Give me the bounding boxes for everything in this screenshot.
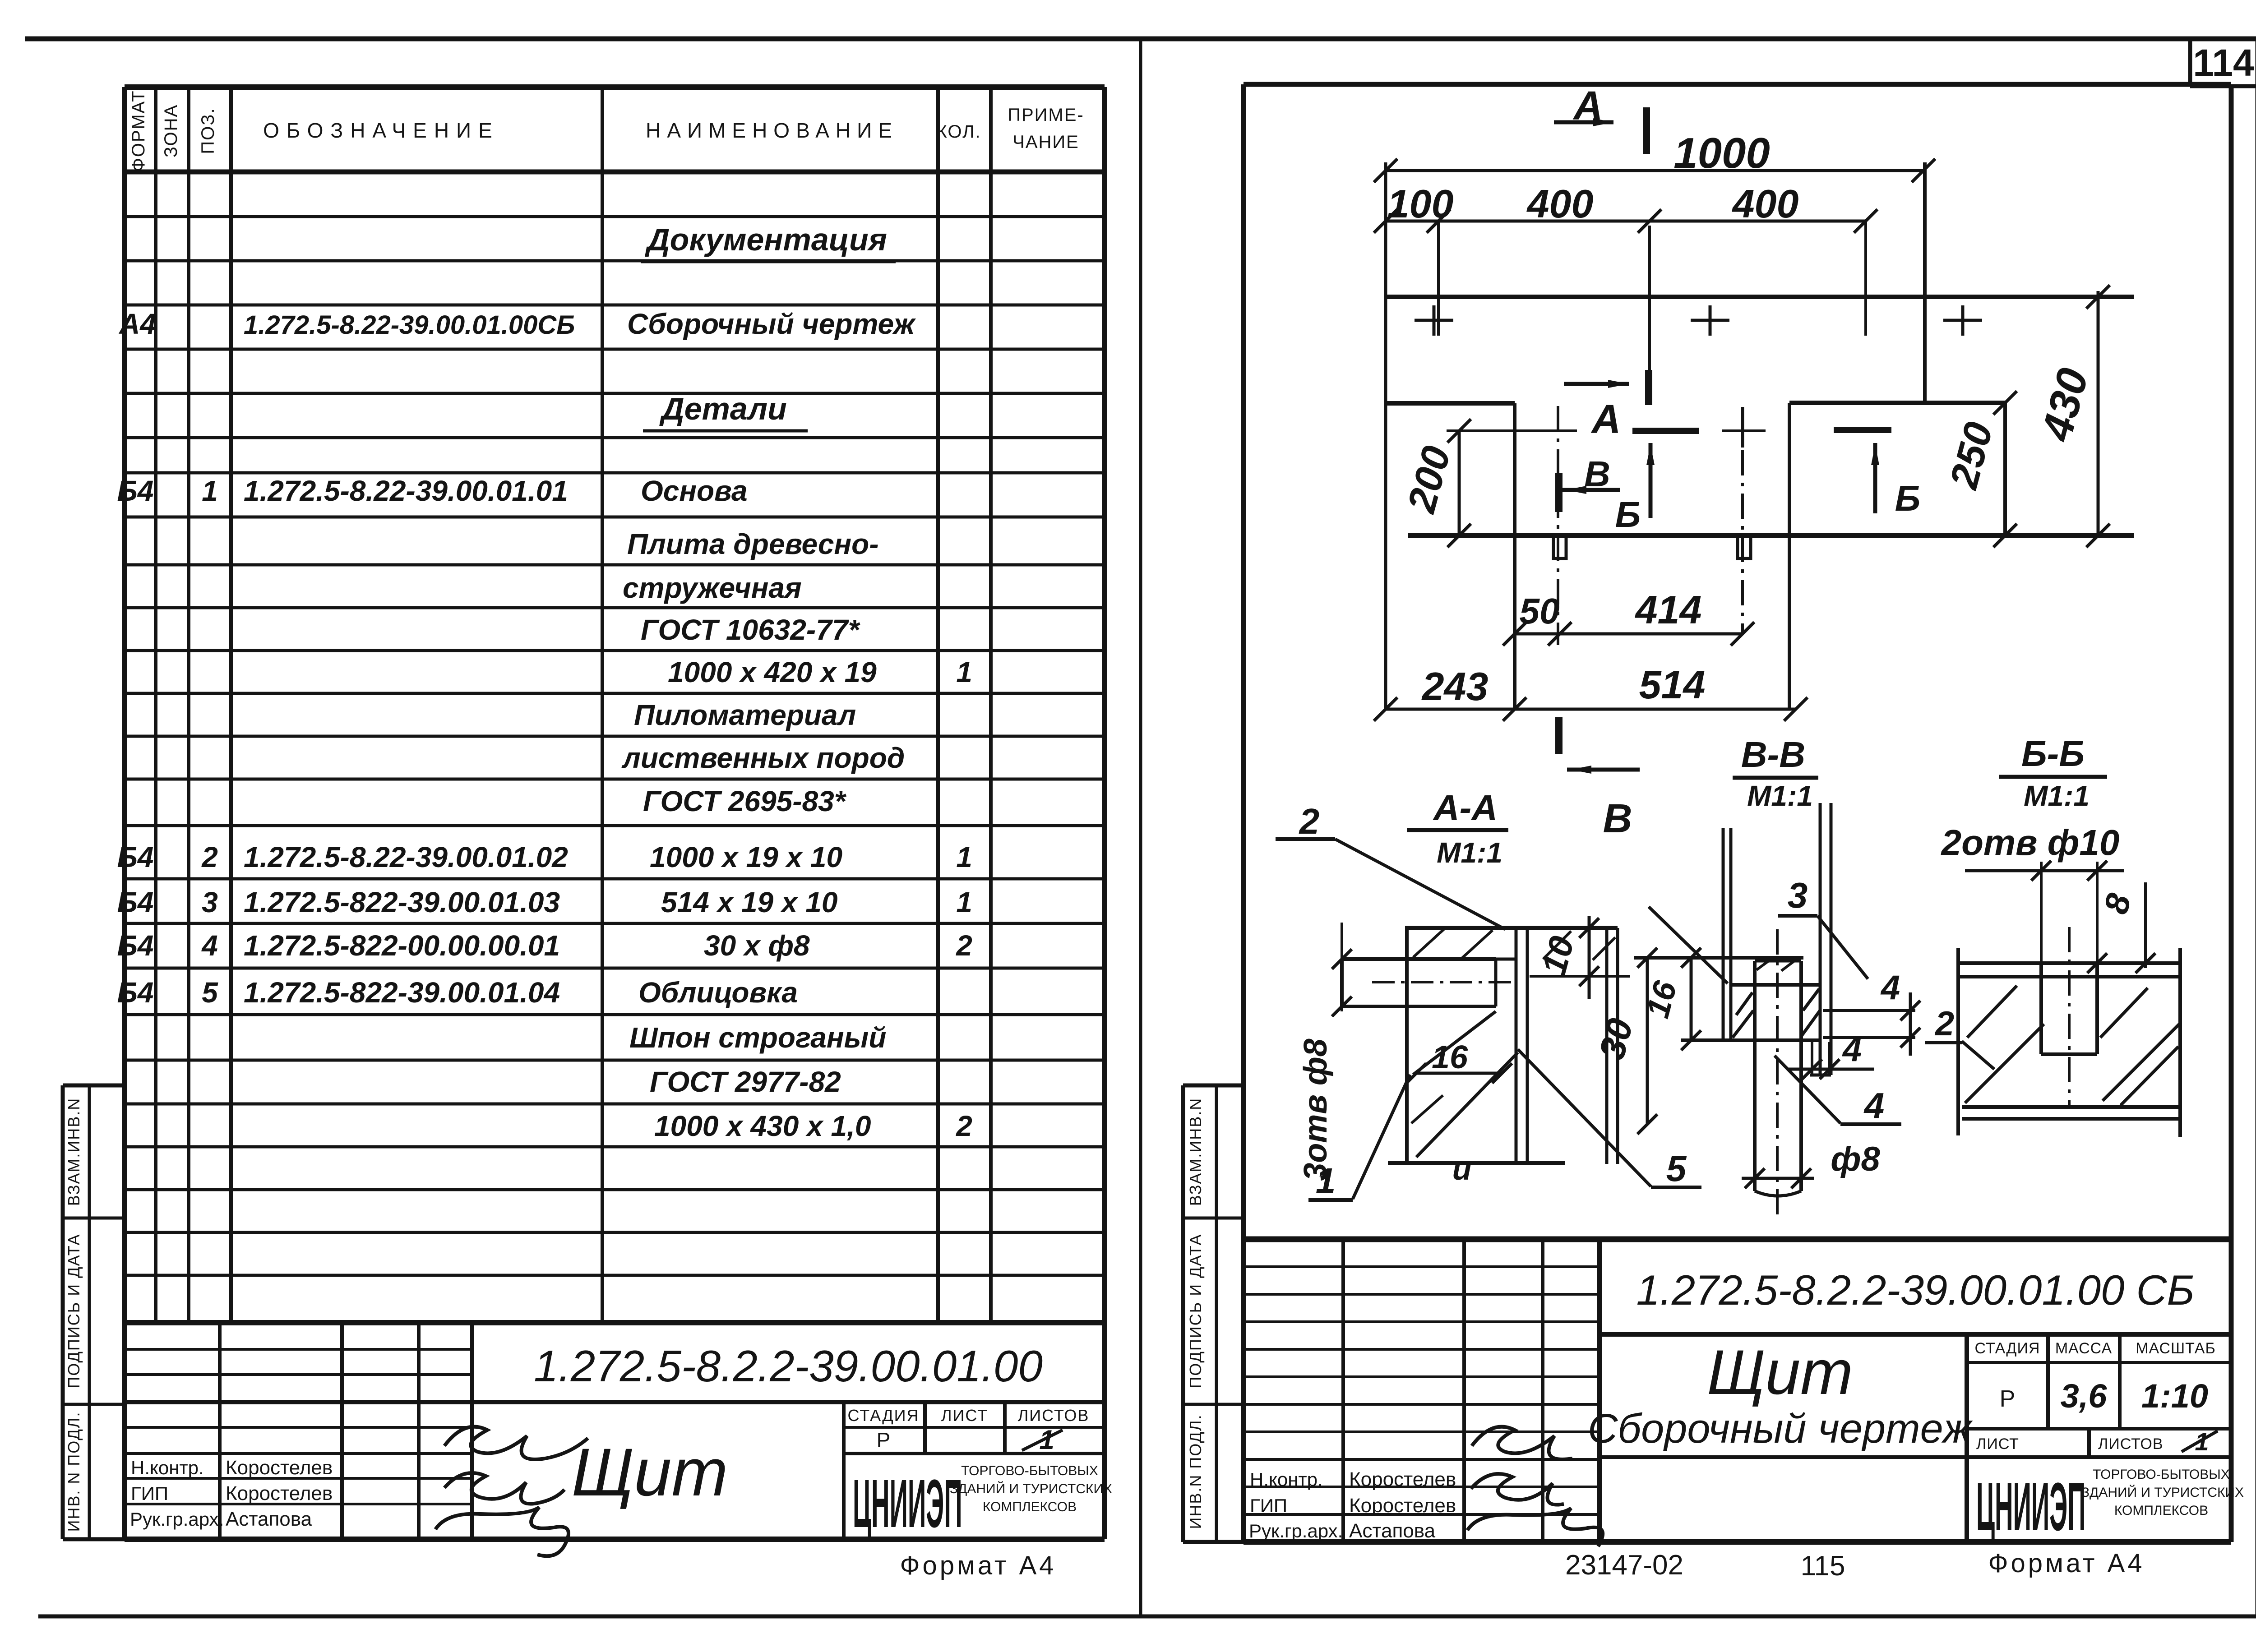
svg-text:1: 1 <box>956 656 972 688</box>
hole 2 centerline <box>1741 407 1744 634</box>
svg-text:2отв ф10: 2отв ф10 <box>1941 822 2120 863</box>
svg-text:Сборочный чертеж: Сборочный чертеж <box>1588 1406 1973 1452</box>
svg-text:2: 2 <box>956 929 972 962</box>
В-В plate band <box>1731 983 1821 987</box>
Б-Б hatch left <box>1965 1024 2044 1103</box>
right block left edge <box>1788 403 1791 709</box>
svg-text:ЛИСТ: ЛИСТ <box>1976 1435 2019 1453</box>
svg-text:Рук.гр.арх.: Рук.гр.арх. <box>130 1509 224 1530</box>
svg-text:Шпон строганый: Шпон строганый <box>629 1021 886 1054</box>
left title block verticals <box>218 1323 222 1539</box>
dim 1000 line <box>1386 169 1923 172</box>
dim 30 В-В <box>1646 958 1649 1124</box>
svg-text:ОБОЗНАЧЕНИЕ: ОБОЗНАЧЕНИЕ <box>263 119 499 142</box>
specification table column lines <box>154 87 157 1323</box>
left signatures scribble <box>444 1427 588 1459</box>
svg-text:Б4: Б4 <box>117 475 154 507</box>
section mark Б right <box>1834 427 1891 433</box>
svg-text:Плита древесно-: Плита древесно- <box>627 528 879 560</box>
svg-text:1.272.5-822-39.00.01.03: 1.272.5-822-39.00.01.03 <box>244 886 560 918</box>
svg-text:А: А <box>1573 83 1603 129</box>
svg-text:В: В <box>1584 454 1610 494</box>
dim 50 and 414 <box>1515 632 1743 636</box>
svg-text:ПОЗ.: ПОЗ. <box>198 107 218 154</box>
section mark В upper <box>1555 473 1563 512</box>
hole 1 centerline <box>1557 406 1559 634</box>
svg-text:Б4: Б4 <box>117 886 154 918</box>
В-В plate top <box>1634 956 1803 960</box>
svg-text:Сборочный чертеж: Сборочный чертеж <box>627 308 916 340</box>
page right rule <box>2256 39 2256 1616</box>
svg-text:Коростелев: Коростелев <box>1349 1495 1456 1517</box>
svg-text:Б-Б: Б-Б <box>2021 734 2085 774</box>
svg-text:2: 2 <box>956 1110 972 1142</box>
svg-text:1: 1 <box>956 841 972 873</box>
svg-text:Р: Р <box>2000 1386 2016 1412</box>
cross mark 2 <box>1691 319 1729 322</box>
svg-text:ЧАНИЕ: ЧАНИЕ <box>1012 132 1079 152</box>
svg-text:115: 115 <box>1801 1550 1845 1582</box>
svg-text:и: и <box>1452 1151 1472 1186</box>
svg-text:1.272.5-8.22-39.00.01.02: 1.272.5-8.22-39.00.01.02 <box>244 841 568 873</box>
dim 10 А-А <box>1530 975 1630 978</box>
dim 4 right В-В <box>1823 1009 1915 1012</box>
svg-text:3: 3 <box>1788 875 1808 915</box>
ext line at 400-2 <box>1864 221 1867 336</box>
В-В hatch <box>1733 1011 1753 1038</box>
svg-text:ЗДАНИЙ И ТУРИСТСКИХ: ЗДАНИЙ И ТУРИСТСКИХ <box>2081 1485 2244 1500</box>
svg-text:Б4: Б4 <box>117 929 154 962</box>
cross mark 3 <box>1943 319 1982 322</box>
svg-text:2: 2 <box>201 841 218 873</box>
svg-text:5: 5 <box>202 976 218 1009</box>
svg-text:2: 2 <box>1299 801 1320 841</box>
svg-text:30 х ф8: 30 х ф8 <box>704 929 810 962</box>
svg-text:лиственных пород: лиственных пород <box>621 742 905 774</box>
svg-text:514: 514 <box>1639 662 1706 707</box>
В-В rail pair B <box>1819 803 1822 1075</box>
svg-text:ЛИСТОВ: ЛИСТОВ <box>2098 1435 2164 1453</box>
svg-text:1: 1 <box>1316 1161 1336 1201</box>
dim 200 <box>1458 430 1461 535</box>
svg-text:Б4: Б4 <box>117 841 154 873</box>
svg-text:Документация: Документация <box>645 222 887 257</box>
svg-text:В: В <box>1603 796 1632 841</box>
svg-text:1.272.5-8.22-39.00.01.01: 1.272.5-8.22-39.00.01.01 <box>244 475 568 507</box>
svg-text:КОЛ.: КОЛ. <box>937 122 981 142</box>
svg-text:4: 4 <box>1863 1085 1885 1126</box>
svg-text:ГИП: ГИП <box>131 1483 168 1504</box>
svg-text:Б: Б <box>1895 478 1921 518</box>
ext line at 100 <box>1437 221 1440 336</box>
svg-text:1: 1 <box>202 475 218 507</box>
svg-text:2: 2 <box>1934 1005 1954 1043</box>
section Б-Б cut trace <box>1447 429 1577 432</box>
svg-text:Р: Р <box>877 1428 891 1452</box>
left block right edge <box>1513 403 1516 709</box>
svg-text:СТАДИЯ: СТАДИЯ <box>1975 1340 2040 1357</box>
Б-Б hole ext dim <box>1965 869 2124 872</box>
svg-text:Основа: Основа <box>641 475 748 507</box>
svg-text:1: 1 <box>956 886 972 918</box>
svg-text:Щит: Щит <box>1707 1337 1853 1407</box>
svg-text:Коростелев: Коростелев <box>226 1482 333 1504</box>
svg-text:ф8: ф8 <box>1831 1140 1880 1178</box>
svg-text:Облицовка: Облицовка <box>638 976 798 1009</box>
svg-text:1.272.5-822-00.00.00.01: 1.272.5-822-00.00.00.01 <box>244 929 560 962</box>
svg-text:МАССА: МАССА <box>2055 1340 2112 1357</box>
left title block rows <box>125 1348 472 1351</box>
svg-text:1:10: 1:10 <box>2141 1377 2208 1415</box>
hole 2 symbol <box>1738 537 1751 558</box>
svg-text:А: А <box>1591 397 1621 442</box>
svg-text:Коростелев: Коростелев <box>1349 1468 1456 1490</box>
left extension line <box>1384 162 1387 709</box>
svg-text:Щит: Щит <box>572 1434 728 1510</box>
svg-text:Формат А4: Формат А4 <box>900 1551 1056 1580</box>
right attribute strip <box>1183 1084 1244 1088</box>
Б-Б hole slot <box>2039 963 2043 1054</box>
right title block frame <box>1244 1237 2231 1242</box>
А-А dowel <box>1342 957 1496 961</box>
leader to rail <box>1649 907 1728 983</box>
svg-text:ПОДПИСЬ И ДАТА: ПОДПИСЬ И ДАТА <box>1186 1233 1205 1388</box>
cross at hole2 on Б-Б line <box>1741 407 1744 448</box>
svg-text:400: 400 <box>1732 181 1799 226</box>
svg-text:ПОДПИСЬ И ДАТА: ПОДПИСЬ И ДАТА <box>65 1233 83 1388</box>
svg-text:4: 4 <box>1880 969 1900 1007</box>
svg-text:Б4: Б4 <box>117 976 154 1009</box>
page number box 114 <box>2188 39 2192 86</box>
svg-text:ГОСТ 2977-82: ГОСТ 2977-82 <box>650 1066 841 1098</box>
svg-text:стружечная: стружечная <box>623 572 802 604</box>
section mark В lower <box>1555 717 1563 754</box>
dim 100-400-400 line <box>1386 220 1866 223</box>
svg-text:ГОСТ 2695-83*: ГОСТ 2695-83* <box>643 785 847 817</box>
right sheet frame <box>1244 82 2231 87</box>
svg-text:ВЗАМ.ИНВ.N: ВЗАМ.ИНВ.N <box>1186 1098 1205 1206</box>
svg-text:243: 243 <box>1421 664 1489 709</box>
svg-text:МАСШТАБ: МАСШТАБ <box>2136 1340 2216 1357</box>
svg-text:1.272.5-822-39.00.01.04: 1.272.5-822-39.00.01.04 <box>244 976 560 1009</box>
А-А right pair <box>1605 928 1609 1164</box>
А-А top hatch <box>1413 929 1444 957</box>
svg-text:414: 414 <box>1635 587 1702 632</box>
В-В dowel <box>1753 961 1757 1191</box>
svg-text:Б: Б <box>1615 494 1641 535</box>
right title block horizontals <box>1244 1265 1600 1268</box>
svg-text:1000 х 19 х 10: 1000 х 19 х 10 <box>650 841 842 873</box>
svg-text:М1:1: М1:1 <box>1747 780 1813 812</box>
dim 4 lower В-В <box>1811 1042 1813 1076</box>
А-А bottom edge <box>1388 1161 1565 1165</box>
right block top edge <box>1789 401 2005 405</box>
left attribute strip frame <box>63 1084 125 1088</box>
svg-text:3: 3 <box>202 886 218 918</box>
svg-text:М1:1: М1:1 <box>1437 836 1502 869</box>
section mark А upper <box>1643 107 1650 154</box>
svg-text:ТОРГОВО-БЫТОВЫХ: ТОРГОВО-БЫТОВЫХ <box>961 1463 1098 1478</box>
svg-text:3отв ф8: 3отв ф8 <box>1298 1038 1334 1181</box>
svg-text:514 х 19 х 10: 514 х 19 х 10 <box>661 886 837 918</box>
svg-text:СТАДИЯ: СТАДИЯ <box>847 1406 919 1425</box>
svg-text:Рук.гр.арх.: Рук.гр.арх. <box>1249 1520 1343 1541</box>
svg-text:М1:1: М1:1 <box>2024 780 2090 812</box>
svg-text:1.272.5-8.2.2-39.00.01.00: 1.272.5-8.2.2-39.00.01.00 <box>534 1341 1043 1391</box>
svg-text:Н.контр.: Н.контр. <box>131 1457 204 1478</box>
sheet divider line <box>1139 39 1142 1616</box>
svg-text:1000 х 430 х 1,0: 1000 х 430 х 1,0 <box>654 1110 871 1142</box>
svg-text:ПРИМЕ-: ПРИМЕ- <box>1008 105 1084 125</box>
svg-text:ЦНИИЭП: ЦНИИЭП <box>1976 1469 2086 1545</box>
А-А left edge <box>1405 928 1409 1163</box>
panel bottom edge <box>1408 533 2134 538</box>
svg-text:1000: 1000 <box>1674 129 1770 177</box>
Б-Б slab bottom double <box>1962 1105 2178 1109</box>
svg-text:5: 5 <box>1666 1149 1687 1189</box>
svg-text:Детали: Детали <box>659 391 787 426</box>
svg-text:ГИП: ГИП <box>1250 1495 1287 1516</box>
svg-text:ГОСТ 10632-77*: ГОСТ 10632-77* <box>641 614 860 646</box>
svg-text:16: 16 <box>1432 1039 1468 1075</box>
specification table outer frame <box>125 84 1105 90</box>
dim 16 В-В <box>1690 958 1693 1040</box>
svg-text:Н.контр.: Н.контр. <box>1250 1469 1323 1490</box>
dim 430 line <box>2097 291 2100 537</box>
right block right edge / dim 250 <box>2003 401 2007 535</box>
В-В rail pair A <box>1722 828 1725 1040</box>
svg-text:114: 114 <box>2193 42 2254 84</box>
svg-text:3,6: 3,6 <box>2061 1377 2108 1415</box>
svg-text:1.272.5-8.2.2-39.00.01.00 СБ: 1.272.5-8.2.2-39.00.01.00 СБ <box>1636 1266 2194 1314</box>
svg-text:А4: А4 <box>118 308 156 340</box>
svg-text:ЛИСТОВ: ЛИСТОВ <box>1018 1406 1090 1425</box>
Б-Б slab top double <box>1958 961 2180 965</box>
А-А top edge <box>1405 926 1618 930</box>
left block top edge <box>1386 401 1515 406</box>
svg-text:ЗДАНИЙ И ТУРИСТСКИХ: ЗДАНИЙ И ТУРИСТСКИХ <box>950 1481 1112 1496</box>
svg-text:ЛИСТ: ЛИСТ <box>941 1406 988 1425</box>
section A cut line <box>1648 226 1651 374</box>
page top rule <box>25 37 2256 42</box>
dim 243 and 514 <box>1386 708 1796 711</box>
В-В dowel dim Ф8 <box>1742 1177 1814 1180</box>
section mark А lower <box>1645 370 1652 405</box>
right title block verticals <box>1341 1239 1345 1542</box>
svg-text:ТОРГОВО-БЫТОВЫХ: ТОРГОВО-БЫТОВЫХ <box>2093 1467 2230 1482</box>
svg-text:НАИМЕНОВАНИЕ: НАИМЕНОВАНИЕ <box>646 119 898 142</box>
Б-Б slab sides <box>1956 948 1960 1135</box>
А-А body hatch <box>1413 1011 1496 1075</box>
section mark Б left <box>1632 428 1699 434</box>
svg-text:Астапова: Астапова <box>1349 1520 1436 1542</box>
hole 1 symbol <box>1553 537 1566 558</box>
svg-text:400: 400 <box>1526 181 1594 226</box>
svg-text:ЦНИИЭП: ЦНИИЭП <box>853 1466 962 1542</box>
right signatures scribble <box>1472 1427 1572 1459</box>
specification table row lines <box>125 215 1105 218</box>
page bottom rule <box>38 1615 2256 1619</box>
svg-text:Формат А4: Формат А4 <box>1988 1549 2145 1578</box>
svg-text:КОМПЛЕКСОВ: КОМПЛЕКСОВ <box>983 1500 1077 1514</box>
specification table header bottom <box>125 170 1105 175</box>
svg-text:КОМПЛЕКСОВ: КОМПЛЕКСОВ <box>2114 1503 2208 1518</box>
svg-text:Коростелев: Коростелев <box>226 1457 333 1479</box>
panel right edge <box>1923 162 1927 403</box>
svg-text:В-В: В-В <box>1741 734 1805 775</box>
svg-text:4: 4 <box>1842 1030 1862 1069</box>
panel top edge <box>1386 295 2134 299</box>
svg-text:Астапова: Астапова <box>226 1508 312 1530</box>
svg-text:Пиломатериал: Пиломатериал <box>634 699 856 731</box>
left title block frame <box>125 1320 1105 1325</box>
svg-text:50: 50 <box>1520 591 1560 631</box>
svg-text:100: 100 <box>1387 181 1454 226</box>
cross mark 1 <box>1415 319 1453 322</box>
svg-text:4: 4 <box>201 929 218 962</box>
svg-text:ЗОНА: ЗОНА <box>161 104 181 157</box>
svg-text:А-А: А-А <box>1433 788 1498 828</box>
svg-text:ВЗАМ.ИНВ.N: ВЗАМ.ИНВ.N <box>65 1098 83 1206</box>
svg-text:ИНВ. N ПОДЛ.: ИНВ. N ПОДЛ. <box>65 1412 83 1532</box>
Б-Б hatch right <box>2103 1024 2179 1101</box>
svg-text:ФОРМАТ: ФОРМАТ <box>129 90 148 171</box>
svg-text:1.272.5-8.22-39.00.01.00СБ: 1.272.5-8.22-39.00.01.00СБ <box>244 310 575 340</box>
А-А inner pair <box>1515 928 1518 1163</box>
svg-text:ИНВ.N ПОДЛ.: ИНВ.N ПОДЛ. <box>1186 1414 1205 1529</box>
А-А dowel dim ext <box>1341 923 1343 1011</box>
svg-text:1000 х 420 х 19: 1000 х 420 х 19 <box>668 656 877 688</box>
svg-text:23147-02: 23147-02 <box>1565 1550 1683 1581</box>
